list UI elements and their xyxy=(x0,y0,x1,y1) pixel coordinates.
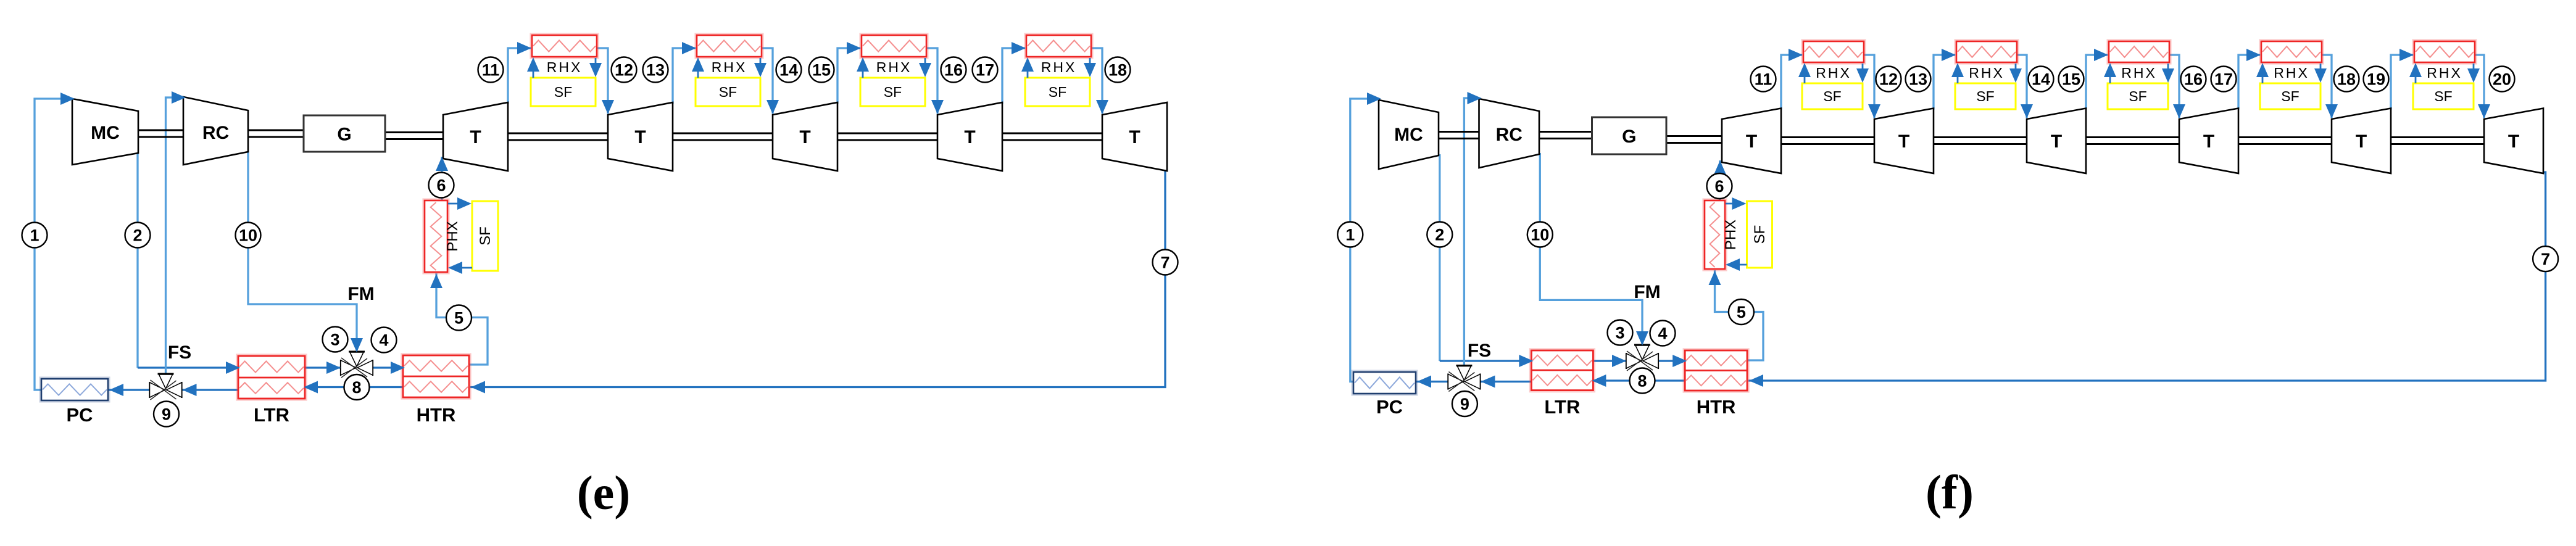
node 9 (e) xyxy=(154,402,179,427)
svg-text:2: 2 xyxy=(133,226,142,245)
wire HTR to LTR node 8 (e) xyxy=(304,386,403,388)
svg-text:LTR: LTR xyxy=(1544,396,1580,418)
wire 7 last turbine to HTR (f) xyxy=(1748,172,2546,381)
wire turbine1 exit to RHX1 (e) xyxy=(508,48,531,104)
svg-text:T: T xyxy=(1129,127,1140,147)
wire FM to HTR (e) xyxy=(373,366,404,368)
svg-text:20: 20 xyxy=(2493,70,2511,89)
svg-text:T: T xyxy=(2203,131,2214,152)
node 5 (e) xyxy=(446,305,472,331)
node 13 (f) xyxy=(1906,67,1931,92)
svg-text:11: 11 xyxy=(482,61,500,80)
shaft T4-T5 (e) xyxy=(1002,133,1102,134)
flow split valve FS (e) xyxy=(149,382,150,398)
wire 1 PC to MC (f) xyxy=(1350,99,1377,382)
turbine T1 (e) xyxy=(443,102,508,171)
wire 6 PHX to first turbine (e) xyxy=(441,157,442,202)
node 15 (f) xyxy=(2059,67,2084,92)
wire SF to PHX bottom (e) xyxy=(451,267,472,269)
solar field SF of RHX4 (e) xyxy=(1025,78,1090,106)
generator G (e) xyxy=(304,115,385,152)
turbine T4 (e) xyxy=(937,102,1002,171)
wire RHX4 to SF return leg (f) xyxy=(2320,64,2322,80)
wire SF to RHX4 hot leg (e) xyxy=(1027,60,1029,78)
reheater RHX4 (e) xyxy=(1026,35,1091,57)
svg-text:6: 6 xyxy=(1714,177,1724,196)
node 7 (f) xyxy=(2533,246,2558,271)
turbine T4 (f) xyxy=(2179,109,2238,174)
node 4 (f) xyxy=(1650,321,1676,346)
node 18 (f) xyxy=(2334,67,2359,92)
solar field SF of RHX3 (f) xyxy=(2108,83,2168,109)
wire 7 last turbine to HTR (e) xyxy=(470,170,1167,387)
wire 6 PHX to first turbine (f) xyxy=(1719,160,1721,202)
svg-text:SF: SF xyxy=(2281,88,2299,104)
node 10 (e) xyxy=(236,223,261,248)
svg-text:FM: FM xyxy=(347,284,374,304)
svg-text:4: 4 xyxy=(1658,325,1667,343)
flow split valve FS (f) xyxy=(1447,374,1448,390)
wire SF to RHX1 hot leg (e) xyxy=(533,60,534,78)
wire FS riser to RC (e) xyxy=(166,97,183,374)
node 7 (e) xyxy=(1153,250,1178,275)
svg-text:SF: SF xyxy=(719,84,737,100)
wire FS riser to RC (f) xyxy=(1464,98,1477,366)
wire RHX3 to SF return leg (e) xyxy=(924,58,926,74)
node 13 (e) xyxy=(643,57,668,83)
shaft T5-T6 (f) xyxy=(2391,136,2484,138)
solar field SF of RHX1 (e) xyxy=(531,78,596,106)
svg-text:15: 15 xyxy=(2062,70,2080,89)
wire turbine3 exit to RHX3 (e) xyxy=(837,48,860,104)
shaft T2-T3 (f) xyxy=(1934,136,2027,138)
wire RHX4 to turbine5 (e) xyxy=(1091,48,1102,114)
svg-text:13: 13 xyxy=(646,61,665,80)
flow merge valve FM (e) xyxy=(340,360,341,376)
svg-text:4: 4 xyxy=(379,331,388,350)
svg-text:16: 16 xyxy=(2184,70,2203,89)
svg-text:RHX: RHX xyxy=(1969,65,2005,81)
reheater RHX2 (e) xyxy=(697,35,762,57)
node 6 (f) xyxy=(1707,173,1732,199)
svg-text:G: G xyxy=(1622,126,1636,147)
solar field SF of RHX2 (f) xyxy=(1955,83,2016,109)
svg-text:19: 19 xyxy=(2367,70,2385,89)
node 6 (e) xyxy=(429,173,454,198)
svg-text:HTR: HTR xyxy=(417,404,456,426)
svg-text:3: 3 xyxy=(330,331,339,349)
svg-text:RHX: RHX xyxy=(547,59,583,75)
wire turbine3 exit to RHX3 (f) xyxy=(2086,55,2108,110)
node 19 (f) xyxy=(2364,67,2389,92)
shaft RC-G (e) xyxy=(248,130,304,131)
wire FM to HTR (f) xyxy=(1658,360,1686,362)
wire turbine2 exit to RHX2 (e) xyxy=(673,48,696,104)
node 16 (e) xyxy=(941,57,966,83)
wire 5 HTR to PHX (f) xyxy=(1715,270,1764,360)
reheater RHX2 (f) xyxy=(1956,41,2017,62)
wire RHX2 to turbine3 (f) xyxy=(2017,55,2027,118)
reheater RHX1 (f) xyxy=(1803,41,1864,62)
node 11 (f) xyxy=(1751,67,1776,92)
svg-text:1: 1 xyxy=(1345,226,1355,244)
svg-text:RC: RC xyxy=(202,123,229,143)
svg-text:T: T xyxy=(964,127,975,147)
svg-text:FS: FS xyxy=(168,342,191,363)
svg-text:SF: SF xyxy=(2434,88,2452,104)
node 2 (e) xyxy=(125,223,151,248)
node 15 (e) xyxy=(809,57,834,83)
svg-text:15: 15 xyxy=(812,61,831,80)
node 1 (e) xyxy=(22,223,48,248)
wire RHX1 to SF return leg (e) xyxy=(595,58,597,74)
generator G (f) xyxy=(1592,117,1667,154)
node 20 (f) xyxy=(2490,67,2515,92)
node 11 (e) xyxy=(478,57,504,83)
compressor RC (e) xyxy=(183,97,248,165)
wire FS to PC (e) xyxy=(107,389,150,391)
wire SF to RHX4 hot leg (f) xyxy=(2262,66,2264,83)
node 12 (f) xyxy=(1876,67,1901,92)
svg-text:16: 16 xyxy=(944,61,963,80)
svg-text:G: G xyxy=(337,125,351,145)
solar field SF of PHX (e) xyxy=(472,201,498,271)
arrowheads main loop (f) xyxy=(1367,93,1381,105)
wire RHX4 to SF return leg (e) xyxy=(1089,58,1091,74)
solar field SF of RHX2 (e) xyxy=(696,78,760,106)
svg-text:RHX: RHX xyxy=(2274,65,2309,81)
wire RHX5 to turbine6 (f) xyxy=(2475,55,2484,118)
primary heat exchanger PHX (f) xyxy=(1705,201,1725,269)
wire RHX2 to turbine3 (e) xyxy=(762,48,773,114)
reheater RHX4 (f) xyxy=(2261,41,2322,62)
low temperature recuperator LTR (e) xyxy=(238,356,305,399)
node 2 (f) xyxy=(1427,222,1452,247)
node 17 (e) xyxy=(973,57,998,83)
svg-text:6: 6 xyxy=(436,176,446,195)
svg-text:14: 14 xyxy=(2032,70,2050,89)
svg-text:11: 11 xyxy=(1755,70,1772,89)
wire PHX to SF top (e) xyxy=(448,203,469,205)
turbine T5 (e) xyxy=(1102,102,1167,171)
shaft RC-G (f) xyxy=(1539,131,1592,133)
wire RHX1 to turbine2 (f) xyxy=(1864,55,1874,118)
wire turbine4 exit to RHX4 (f) xyxy=(2238,55,2260,110)
svg-text:RC: RC xyxy=(1496,125,1523,145)
svg-text:RHX: RHX xyxy=(2121,65,2157,81)
svg-text:FS: FS xyxy=(1468,341,1491,361)
node 9 (f) xyxy=(1452,391,1477,416)
svg-text:14: 14 xyxy=(779,61,798,80)
turbine T3 (f) xyxy=(2027,109,2086,174)
precooler PC (e) xyxy=(41,379,108,400)
wire RHX4 to turbine5 (f) xyxy=(2322,55,2332,118)
shaft T3-T4 (f) xyxy=(2086,136,2179,138)
wire 5 HTR to PHX (e) xyxy=(436,273,488,365)
svg-text:SF: SF xyxy=(1751,225,1768,244)
wire SF to RHX1 hot leg (f) xyxy=(1804,66,1806,83)
svg-text:5: 5 xyxy=(454,309,463,328)
svg-text:PHX: PHX xyxy=(444,221,461,251)
svg-text:SF: SF xyxy=(884,84,902,100)
wire RHX3 to turbine4 (e) xyxy=(926,48,937,114)
svg-text:RHX: RHX xyxy=(876,59,912,75)
node 3 (f) xyxy=(1608,320,1633,345)
node 3 (e) xyxy=(323,327,348,352)
svg-text:T: T xyxy=(2051,131,2062,152)
solar field SF of RHX5 (f) xyxy=(2413,83,2474,109)
svg-text:T: T xyxy=(2508,131,2519,152)
wire 2 MC to LTR (f) xyxy=(1439,154,1440,361)
svg-text:RHX: RHX xyxy=(712,59,747,75)
shaft MC-RC (f) xyxy=(1439,131,1479,133)
svg-text:T: T xyxy=(1898,131,1909,152)
node 8 (f) xyxy=(1630,368,1655,394)
svg-text:SF: SF xyxy=(2129,88,2146,104)
svg-text:RHX: RHX xyxy=(1041,59,1077,75)
turbine T2 (f) xyxy=(1874,109,1934,174)
wire turbine1 exit to RHX1 (f) xyxy=(1781,55,1802,110)
svg-text:9: 9 xyxy=(1460,395,1469,413)
svg-text:RHX: RHX xyxy=(1816,65,1851,81)
svg-text:MC: MC xyxy=(91,123,120,143)
reheater RHX3 (f) xyxy=(2109,41,2169,62)
wire 10 RC to FM (f) xyxy=(1540,153,1642,344)
wire RHX5 to SF return leg (f) xyxy=(2473,64,2475,80)
svg-text:SF: SF xyxy=(1049,84,1066,100)
reheater RHX5 (f) xyxy=(2414,41,2475,62)
wire LTR to FM (e) xyxy=(305,366,341,368)
svg-text:(f): (f) xyxy=(1926,465,1974,519)
low temperature recuperator LTR (f) xyxy=(1531,350,1593,391)
svg-text:1: 1 xyxy=(30,226,39,245)
compressor MC (f) xyxy=(1379,100,1439,169)
svg-text:17: 17 xyxy=(2214,70,2233,89)
wire 1 PC to MC (e) xyxy=(35,99,71,390)
wire LTR to FS node 9 (e) xyxy=(182,389,239,391)
svg-text:SF: SF xyxy=(1823,88,1841,104)
wire SF to RHX2 hot leg (e) xyxy=(697,60,699,78)
svg-text:T: T xyxy=(634,127,646,147)
svg-text:T: T xyxy=(799,127,810,147)
compressor RC (f) xyxy=(1479,99,1540,168)
svg-text:8: 8 xyxy=(352,378,361,397)
solar field SF of RHX3 (e) xyxy=(860,78,925,106)
reheater RHX1 (e) xyxy=(532,35,597,57)
turbine T6 (f) xyxy=(2484,109,2543,174)
node 17 (f) xyxy=(2211,67,2237,92)
shaft G-T1 (f) xyxy=(1666,135,1722,137)
svg-text:T: T xyxy=(2356,131,2367,152)
wire RHX3 to turbine4 (f) xyxy=(2169,55,2179,118)
wire RHX1 to turbine2 (e) xyxy=(597,48,608,114)
shaft MC-RC (e) xyxy=(138,130,183,131)
shaft T3-T4 (e) xyxy=(837,133,937,134)
svg-text:T: T xyxy=(1746,131,1757,152)
wire RHX2 to SF return leg (f) xyxy=(2015,64,2017,80)
svg-text:2: 2 xyxy=(1435,226,1444,244)
svg-text:FM: FM xyxy=(1634,282,1660,302)
svg-text:18: 18 xyxy=(2337,70,2356,89)
wire RHX1 to SF return leg (f) xyxy=(1862,64,1864,80)
turbine T2 (e) xyxy=(608,102,673,171)
svg-text:9: 9 xyxy=(162,405,171,424)
reheater RHX3 (e) xyxy=(862,35,926,57)
primary heat exchanger PHX (e) xyxy=(425,201,447,272)
high temperature recuperator HTR (f) xyxy=(1685,350,1747,391)
wire HTR to LTR node 8 (f) xyxy=(1592,379,1685,381)
svg-text:5: 5 xyxy=(1737,303,1746,321)
wire RHX3 to SF return leg (f) xyxy=(2167,64,2169,80)
flow merge valve FM (f) xyxy=(1626,353,1627,369)
svg-text:10: 10 xyxy=(239,226,257,245)
svg-text:(e): (e) xyxy=(577,466,631,519)
wire SF to RHX5 hot leg (f) xyxy=(2415,66,2417,83)
shaft T1-T2 (f) xyxy=(1781,136,1874,138)
arrowheads main loop (e) xyxy=(60,93,75,105)
svg-text:LTR: LTR xyxy=(254,404,289,426)
wire LTR to FM (f) xyxy=(1593,360,1626,362)
node 1 (f) xyxy=(1337,222,1363,247)
wire LTR to FS node 9 (f) xyxy=(1480,381,1531,383)
wire SF to PHX bottom (f) xyxy=(1728,264,1747,266)
wire FS to PC (f) xyxy=(1415,381,1448,383)
svg-text:17: 17 xyxy=(976,61,994,80)
svg-text:12: 12 xyxy=(1879,70,1898,89)
svg-text:18: 18 xyxy=(1108,61,1127,80)
svg-text:RHX: RHX xyxy=(2427,65,2462,81)
node 5 (f) xyxy=(1729,299,1754,325)
svg-text:7: 7 xyxy=(2541,250,2550,268)
shaft T1-T2 (e) xyxy=(508,133,608,134)
wire 10 RC to FM (e) xyxy=(248,151,357,350)
svg-text:SF: SF xyxy=(554,84,572,100)
svg-text:10: 10 xyxy=(1531,226,1549,244)
svg-text:HTR: HTR xyxy=(1697,396,1736,418)
svg-text:MC: MC xyxy=(1394,125,1423,145)
wire 2 MC to LTR (e) xyxy=(136,152,138,368)
shaft G-T1 (e) xyxy=(385,131,443,133)
wire SF to RHX2 hot leg (f) xyxy=(1957,66,1959,83)
node 12 (e) xyxy=(612,57,637,83)
wire turbine4 exit to RHX4 (e) xyxy=(1002,48,1025,104)
precooler PC (f) xyxy=(1353,372,1416,394)
solar field SF of RHX1 (f) xyxy=(1802,83,1863,109)
shaft T2-T3 (e) xyxy=(673,133,773,134)
solar field SF of PHX (f) xyxy=(1747,201,1772,268)
wire RHX2 to SF return leg (e) xyxy=(760,58,762,74)
node 8 (e) xyxy=(344,374,370,400)
svg-text:PHX: PHX xyxy=(1722,220,1739,250)
svg-text:SF: SF xyxy=(1976,88,1994,104)
svg-text:SF: SF xyxy=(477,226,494,246)
node 14 (e) xyxy=(776,57,802,83)
svg-text:3: 3 xyxy=(1615,324,1624,342)
wire PHX to SF top (f) xyxy=(1726,203,1744,205)
shaft T4-T5 (f) xyxy=(2238,136,2332,138)
wire SF to RHX3 hot leg (e) xyxy=(862,60,864,78)
svg-text:8: 8 xyxy=(1637,372,1647,391)
svg-text:7: 7 xyxy=(1160,254,1170,272)
node 18 (e) xyxy=(1105,57,1131,83)
svg-text:PC: PC xyxy=(1376,396,1403,418)
svg-text:T: T xyxy=(470,127,481,147)
svg-text:PC: PC xyxy=(66,404,93,426)
svg-text:13: 13 xyxy=(1909,70,1927,89)
wire turbine5 exit to RHX5 (f) xyxy=(2391,55,2413,110)
node 14 (f) xyxy=(2029,67,2054,92)
high temperature recuperator HTR (e) xyxy=(403,355,469,397)
node 16 (f) xyxy=(2181,67,2206,92)
turbine T5 (f) xyxy=(2332,109,2391,174)
turbine T3 (e) xyxy=(773,102,837,171)
node 10 (f) xyxy=(1527,222,1553,247)
wire turbine2 exit to RHX2 (f) xyxy=(1934,55,1955,110)
solar field SF of RHX4 (f) xyxy=(2260,83,2320,109)
svg-text:12: 12 xyxy=(615,61,633,80)
node 4 (e) xyxy=(372,328,397,353)
wire SF to RHX3 hot leg (f) xyxy=(2109,66,2111,83)
turbine T1 (f) xyxy=(1722,109,1781,174)
compressor MC (e) xyxy=(72,99,138,165)
